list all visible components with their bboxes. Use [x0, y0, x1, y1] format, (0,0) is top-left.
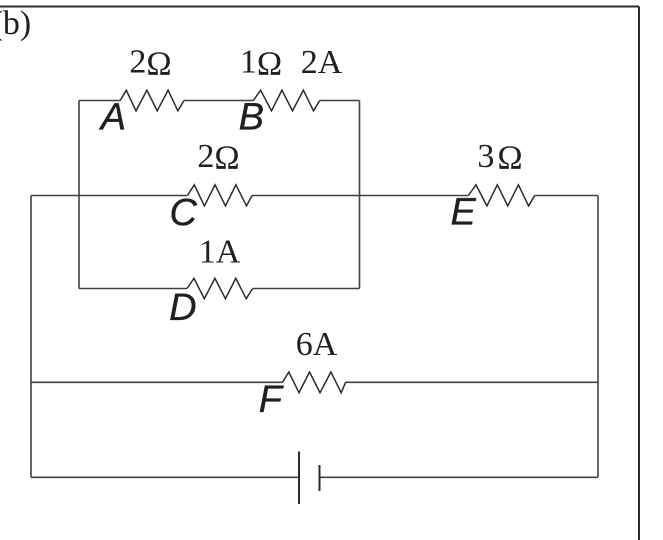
wire: inner box right vertical: [359, 101, 361, 289]
resistor F: [283, 372, 346, 393]
battery short plate: [319, 465, 321, 491]
svg-text:1A: 1A: [199, 234, 241, 271]
resistor B: [253, 90, 319, 111]
svg-text:A: A: [99, 97, 126, 139]
svg-text:1Ω: 1Ω: [240, 44, 282, 83]
resistor A: [120, 90, 184, 111]
svg-text:C: C: [170, 192, 198, 234]
wire: inner box left vertical: [78, 101, 80, 289]
svg-text:(b): (b): [0, 5, 31, 42]
wire: outer left vertical: [30, 196, 32, 478]
resistor D: [187, 278, 253, 298]
svg-text:2A: 2A: [301, 44, 343, 81]
svg-text:6A: 6A: [296, 326, 338, 363]
wire: outer right vertical: [597, 196, 599, 478]
svg-text:3Ω: 3Ω: [477, 138, 525, 177]
svg-text:E: E: [451, 192, 477, 234]
wire: top branch segments: [79, 100, 360, 102]
svg-text:2Ω: 2Ω: [197, 138, 239, 177]
battery long plate: [298, 452, 300, 505]
wire: middle branch segments: [31, 195, 598, 197]
wire: F branch segments: [31, 381, 598, 383]
svg-text:D: D: [169, 287, 196, 329]
svg-text:F: F: [259, 379, 284, 421]
svg-text:B: B: [239, 97, 264, 139]
svg-text:2Ω: 2Ω: [129, 44, 171, 83]
resistor E: [468, 185, 534, 206]
wire: bottom segments: [31, 476, 598, 478]
wire: D branch segments: [79, 288, 360, 290]
resistor C: [188, 185, 253, 206]
